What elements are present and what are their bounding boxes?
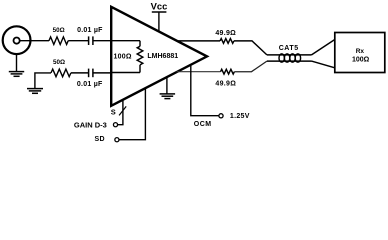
wire C2 to amplifier - input [93, 72, 111, 74]
wire pair to Rx box top [312, 40, 335, 55]
CAT5 twisted pair cable [267, 54, 312, 62]
wire pair to Rx box bottom [312, 61, 335, 68]
Vcc supply [152, 12, 167, 32]
wire ground up and right to R2 [35, 73, 51, 89]
svg-text:100Ω: 100Ω [114, 54, 132, 61]
svg-text:OCM: OCM [194, 121, 212, 128]
resistor R1 50 ohm (top input) [49, 37, 68, 45]
svg-text:100Ω: 100Ω [352, 57, 370, 64]
connector J1 (BNC input) [3, 26, 31, 54]
wire SD to amplifier [119, 89, 145, 140]
svg-text:Vcc: Vcc [151, 1, 168, 12]
svg-text:GAIN D-3: GAIN D-3 [74, 120, 107, 129]
resistor R2 50 ohm (bottom input) [51, 69, 71, 77]
wire +output to R3 [177, 40, 220, 42]
capacitor C2 0.01 uF (bottom input) [89, 69, 93, 78]
svg-text:50Ω: 50Ω [53, 59, 65, 66]
svg-text:0.01 µF: 0.01 µF [77, 27, 103, 34]
svg-text:SD: SD [94, 136, 105, 143]
resistor R3 49.9 ohm (top output) [220, 39, 234, 44]
svg-text:1.25V: 1.25V [230, 113, 250, 120]
op-amp U1 LMH6881 (triangle body) [111, 7, 207, 106]
wire J1 center pin to R1 [20, 40, 49, 42]
terminal GAIN D0-3 [113, 123, 117, 127]
svg-text:Rx: Rx [356, 48, 365, 55]
wire J1 shield to ground [16, 54, 18, 71]
wire R4 to twisted pair [234, 61, 267, 72]
wire C1 to amplifier + input [93, 40, 111, 42]
svg-text:49.9Ω: 49.9Ω [215, 30, 236, 37]
resistor R4 49.9 ohm (bottom output) [221, 69, 235, 74]
wire GAIN bus to amplifier [117, 100, 123, 125]
ground (amplifier) [166, 77, 168, 94]
ground (below J1) [9, 72, 24, 77]
wire R2 to C2 [71, 72, 88, 74]
wire OCM pin down and right [191, 65, 219, 116]
bus slash (width 5) [119, 106, 126, 115]
wire R3 to twisted pair [234, 41, 267, 55]
resistor Rt 100 ohm (internal termination) [137, 41, 143, 73]
terminal 1.25V (OCM) [219, 114, 223, 118]
svg-text:49.9Ω: 49.9Ω [215, 80, 236, 87]
terminal SD [115, 138, 119, 142]
svg-text:CAT5: CAT5 [279, 45, 299, 52]
capacitor C1 0.01 uF (top input) [89, 36, 93, 45]
wire -output to R4 [177, 71, 221, 73]
svg-text:0.01 µF: 0.01 µF [77, 81, 103, 88]
wire internal bottom stub to Rt [111, 72, 140, 74]
svg-text:50Ω: 50Ω [53, 27, 65, 34]
wire R1 to C1 [68, 40, 88, 42]
svg-text:LMH6881: LMH6881 [147, 53, 178, 60]
ground (bottom input) [27, 89, 43, 94]
svg-text:S: S [111, 108, 116, 117]
resistor Rx 100 ohm (receiver load box) [335, 33, 385, 73]
wire internal top stub to Rt [111, 40, 140, 42]
